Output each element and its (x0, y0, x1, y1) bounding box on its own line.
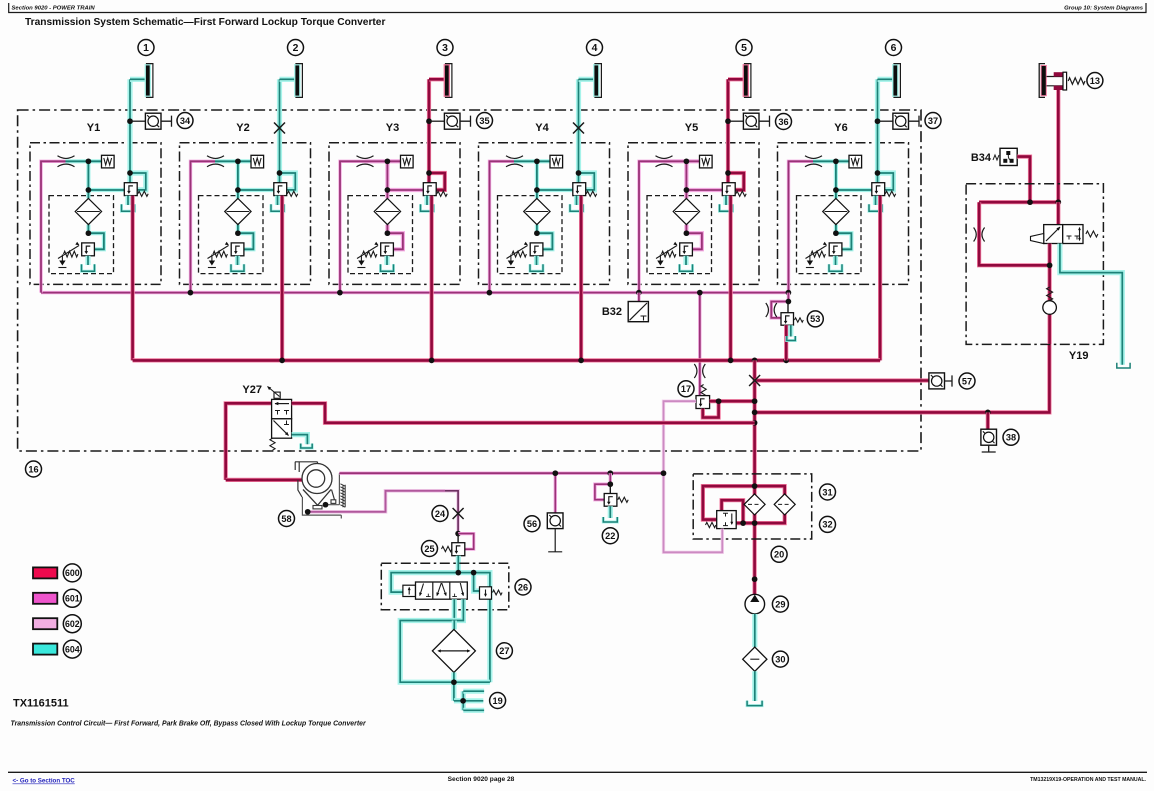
wire: interior supply (215, 159, 251, 163)
legend 604 (33, 644, 57, 655)
clutch supply line (726, 79, 730, 182)
clutch 1 id (138, 40, 154, 56)
filter 31 (744, 494, 765, 515)
plug stub (909, 116, 920, 127)
ground symbol (809, 255, 811, 261)
ground symbol (211, 255, 213, 261)
filter 32 (774, 494, 795, 515)
clutch supply line (427, 79, 431, 182)
clutch 6 id (886, 40, 902, 56)
svg-text:604: 604 (65, 644, 80, 654)
cooler outlet (451, 672, 456, 700)
solenoid stage drain (235, 256, 240, 265)
svg-text:B34: B34 (971, 152, 992, 164)
valve 17 feed (under rail) (698, 293, 701, 396)
orifice (974, 228, 977, 242)
svg-text:2: 2 (293, 43, 299, 54)
orifice (656, 156, 673, 159)
svg-text:29: 29 (775, 599, 785, 609)
junction dots (86, 158, 92, 164)
svg-text:6: 6 (891, 43, 897, 54)
proportional solenoid stage valve (231, 243, 244, 256)
damper spring box (849, 155, 862, 168)
test port 34 (127, 118, 133, 124)
svg-text:Y27: Y27 (242, 384, 262, 396)
wire to test port (429, 120, 444, 122)
svg-text:TX1161511: TX1161511 (13, 698, 69, 710)
lockup clutch 13 (1042, 66, 1046, 95)
solenoid stage drain (384, 256, 389, 265)
Y27 drain (292, 435, 308, 445)
orifice (506, 156, 523, 159)
wire: interior supply (365, 159, 401, 163)
Y19 pilot tab (1031, 234, 1044, 244)
orifice plug 24 (453, 508, 464, 519)
filter diamond (225, 198, 251, 224)
wire: pilot loop to solenoid stage (238, 233, 254, 249)
lube line to test port 57 (755, 378, 929, 382)
pilot relief 26b (480, 587, 492, 599)
orifice (357, 156, 374, 159)
valve 22 drain (608, 506, 613, 518)
svg-text:27: 27 (499, 646, 509, 656)
junction dots (385, 158, 391, 164)
clutch supply line (875, 79, 880, 182)
converter shaft hatch (340, 484, 345, 507)
plug stub (759, 116, 770, 127)
modulating reducing valve (872, 183, 885, 196)
orifice (58, 156, 75, 159)
filter diamond (673, 198, 699, 224)
wire: interior supply (813, 159, 849, 163)
lockup valve box Y19 (966, 184, 1103, 345)
svg-text:4: 4 (592, 43, 598, 54)
ground symbol (61, 255, 63, 261)
converter turbine V (303, 490, 331, 506)
valve 53 feed (787, 293, 790, 302)
solenoid stage drain (85, 256, 90, 265)
wire to control valve 26 (456, 556, 461, 573)
solenoid valve block Y5 (628, 143, 759, 285)
legend 602 (33, 618, 57, 629)
svg-text:31: 31 (822, 487, 832, 497)
torque converter 58 (302, 464, 332, 494)
wire to test port (130, 120, 145, 122)
bypass valve 20 inner loop (722, 500, 744, 523)
oil cooler 27 (432, 629, 475, 672)
lockup piston (1047, 77, 1064, 86)
damper spring box (700, 155, 713, 168)
modulating reducing valve (573, 183, 586, 196)
svg-text:Y6: Y6 (834, 122, 847, 134)
solenoid actuator (403, 585, 416, 596)
pressure supply drop (600) (878, 196, 882, 361)
svg-text:Group 10: System Diagrams: Group 10: System Diagrams (1064, 6, 1144, 12)
clutch 2 id (288, 40, 304, 56)
clutch 4 id (587, 40, 603, 56)
svg-text:602: 602 (65, 619, 80, 629)
legend 601 (33, 593, 57, 604)
svg-text:38: 38 (1006, 433, 1016, 443)
pressure supply drop (600) (131, 196, 135, 361)
filter gallery (703, 486, 755, 519)
bypass valve drain (602) (664, 473, 723, 552)
B34 line (1017, 157, 1030, 203)
filter block box (693, 474, 812, 539)
wire: feed from reduced-pressure rail (41, 161, 67, 292)
test port box (743, 113, 759, 129)
reduced pressure rail (601) (41, 291, 788, 294)
clutch pack symbol (594, 65, 598, 95)
wire: interior supply (66, 159, 102, 163)
modulating reducing valve (722, 183, 735, 196)
ground symbol (360, 255, 362, 261)
suction line (752, 614, 757, 647)
svg-text:Section 9020 - POWER TRAIN: Section 9020 - POWER TRAIN (12, 6, 96, 12)
valve 53 outlet (600) (784, 325, 788, 360)
svg-text:Y19: Y19 (1069, 350, 1089, 362)
Y27 solenoid pilot (274, 392, 280, 398)
wire: feed from reduced-pressure rail (639, 161, 665, 292)
svg-text:TM13219X19-OPERATION AND TEST: TM13219X19-OPERATION AND TEST MANUAL. (1030, 777, 1146, 783)
valve drain to tank (873, 196, 878, 205)
proportional solenoid stage valve (530, 243, 543, 256)
scavenge pump 29 (745, 594, 765, 614)
solenoid valve block Y4 (479, 143, 610, 285)
bypass valve 20 (717, 511, 737, 529)
damper spring box (251, 155, 264, 168)
tank 19 (454, 698, 463, 703)
converter outlet (601) (326, 473, 340, 505)
legend 600 (33, 567, 57, 578)
check valve 25 loop (458, 534, 474, 550)
filter diamond (75, 198, 101, 224)
orifice (694, 364, 697, 378)
pressure feedback loop (728, 173, 744, 190)
svg-text:Transmission Control Circuit—: Transmission Control Circuit— First Forw… (11, 721, 366, 728)
damper spring box (550, 155, 563, 168)
main pressure rail (600) (133, 358, 881, 362)
pilot gallery (458, 570, 473, 575)
pressure feedback loop (429, 173, 445, 190)
svg-text:57: 57 (962, 376, 972, 386)
orifice (805, 156, 822, 159)
clutch pack symbol (445, 65, 449, 95)
sump (752, 671, 757, 701)
clutch supply line (127, 79, 132, 182)
relief valve 53 (781, 313, 794, 326)
B32 sensor feed (637, 293, 640, 302)
valve assembly box 16 (18, 110, 921, 451)
check valve 25 (452, 543, 465, 556)
pressure feedback loop (130, 173, 146, 190)
wire: interior supply (664, 159, 700, 163)
clutch pack symbol (295, 65, 299, 95)
clutch pack symbol (146, 65, 150, 95)
directional spool valve 26 (416, 582, 468, 599)
orifice (766, 303, 769, 317)
wire: converter inlet (226, 478, 302, 482)
header rule (9, 3, 1146, 13)
filter diamond (374, 198, 400, 224)
main supply drop to converter circuit (752, 360, 756, 594)
valve drain to tank (574, 196, 579, 205)
valve outlet with check (1047, 244, 1051, 345)
temperature sensor B32 (628, 302, 648, 322)
damper spring box (102, 155, 115, 168)
valve drain to tank (275, 196, 280, 205)
svg-text:Y2: Y2 (236, 122, 249, 134)
test port 35 (426, 118, 432, 124)
wire: feed from reduced-pressure rail (191, 161, 217, 292)
test port 38 (986, 412, 990, 429)
junction dots (684, 158, 690, 164)
svg-text:20: 20 (774, 550, 784, 560)
wire: pilot loop to solenoid stage (686, 233, 702, 249)
svg-text:13: 13 (1090, 76, 1100, 86)
valve 17 outlet (710, 399, 755, 403)
Y19 drain (1060, 244, 1122, 365)
clutch supply line (277, 79, 282, 182)
pressure feedback loop (878, 173, 894, 190)
wire to test port (728, 120, 743, 122)
proportional solenoid stage valve (82, 243, 95, 256)
proportional solenoid stage valve (829, 243, 842, 256)
solenoid valve block Y3 (329, 143, 460, 285)
Y27 outlet to converter line (292, 403, 755, 423)
svg-text:B32: B32 (602, 306, 622, 318)
modulating reducing valve (274, 183, 287, 196)
svg-text:5: 5 (741, 43, 747, 54)
svg-text:Y1: Y1 (87, 122, 100, 134)
solenoid valve Y19 (1056, 202, 1060, 224)
pressure supply drop (600) (280, 196, 284, 361)
Y27 spring (270, 438, 275, 450)
relief valve 22 (607, 470, 613, 476)
converter lube tap (602) (308, 491, 445, 512)
modulating reducing valve (124, 183, 137, 196)
svg-text:<- Go to Section TOC: <- Go to Section TOC (13, 778, 76, 785)
ground symbol (659, 255, 661, 261)
speed sensor B34 (1000, 148, 1017, 165)
svg-text:Y5: Y5 (685, 122, 698, 134)
clutch pack symbol (893, 65, 897, 95)
solenoid stage drain (534, 256, 539, 265)
test port box (444, 113, 460, 129)
test port 37 (875, 118, 881, 124)
valve 17 bottom loop (703, 401, 719, 417)
wire: pilot loop to solenoid stage (537, 233, 553, 249)
test port 36 (725, 118, 731, 124)
plug stub (161, 116, 172, 127)
valve 53 drain (788, 325, 793, 336)
wire: feed from reduced-pressure rail (340, 161, 366, 292)
solenoid valve block Y1 (30, 143, 161, 285)
cooler feed lines (452, 599, 457, 620)
svg-text:24: 24 (435, 509, 446, 519)
svg-text:601: 601 (65, 593, 80, 603)
converter-out / cooler return line (755, 344, 1050, 412)
strainer 30 (743, 647, 767, 671)
svg-text:3: 3 (442, 43, 448, 54)
plugged port Y4 (573, 123, 584, 134)
footer rule (8, 771, 1147, 773)
lockup supply (1056, 90, 1060, 202)
pressure supply drop (600) (430, 196, 434, 361)
pressure feedback loop (579, 173, 595, 190)
supply gallery (979, 200, 1058, 204)
proportional solenoid stage valve (680, 243, 693, 256)
plug stub (460, 116, 471, 127)
proportional solenoid stage valve (381, 243, 394, 256)
wire: interior supply (514, 159, 550, 163)
clutch 3 id (437, 40, 453, 56)
valve drain to tank (424, 196, 429, 205)
filter diamond (524, 198, 550, 224)
orifice (207, 156, 224, 159)
svg-text:Y4: Y4 (535, 122, 549, 134)
control valve box 26 (381, 563, 509, 610)
svg-text:19: 19 (492, 696, 502, 706)
solenoid stage drain (683, 256, 688, 265)
pressure supply drop (600) (579, 196, 583, 361)
junction dots (235, 158, 241, 164)
svg-text:17: 17 (681, 384, 691, 394)
clutch pack symbol (744, 65, 748, 95)
svg-text:58: 58 (281, 514, 291, 524)
junction dots (833, 158, 839, 164)
svg-text:Section 9020 page 28: Section 9020 page 28 (448, 776, 515, 783)
wire: pilot loop to solenoid stage (836, 233, 852, 249)
svg-text:37: 37 (928, 116, 938, 126)
svg-text:36: 36 (778, 117, 788, 127)
filter diamond (823, 198, 849, 224)
svg-text:22: 22 (605, 531, 615, 541)
svg-text:35: 35 (479, 116, 489, 126)
valve 17 sense line (602) (664, 401, 697, 473)
solenoid stage drain (833, 256, 838, 265)
svg-text:30: 30 (775, 654, 785, 664)
clutch 5 id (736, 40, 752, 56)
pressure regulator valve 17 (696, 396, 710, 409)
svg-text:600: 600 (65, 568, 80, 578)
test port box (893, 113, 909, 129)
damper spring box (401, 155, 414, 168)
svg-text:32: 32 (822, 520, 832, 530)
wire: supply to Y27 (226, 403, 272, 480)
wire: feed from reduced-pressure rail (789, 161, 815, 292)
wire: feed from reduced-pressure rail (490, 161, 516, 292)
svg-text:25: 25 (424, 544, 434, 554)
junction dots (534, 158, 540, 164)
converter case drain (302, 497, 341, 519)
plugged port Y2 (274, 123, 285, 134)
solenoid valve block Y6 (778, 143, 909, 285)
clutch supply line (576, 79, 581, 182)
ground symbol (510, 255, 512, 261)
svg-text:26: 26 (518, 582, 528, 592)
pressure feedback loop (280, 173, 296, 190)
pressure supply drop (600) (728, 196, 732, 361)
svg-text:Y3: Y3 (386, 122, 399, 134)
test port box (145, 113, 161, 129)
svg-text:16: 16 (28, 464, 38, 474)
modulating reducing valve (423, 183, 436, 196)
valve drain to tank (723, 196, 728, 205)
test port 57 (929, 373, 945, 389)
cooler bypass loop (400, 621, 490, 683)
svg-text:Transmission System Schematic—: Transmission System Schematic—First Forw… (25, 17, 385, 28)
svg-text:34: 34 (180, 116, 191, 126)
valve drain to tank (125, 196, 130, 205)
check valve 56 (554, 473, 557, 513)
svg-text:53: 53 (810, 314, 820, 324)
solenoid valve block Y2 (180, 143, 311, 285)
wire: pilot loop to solenoid stage (387, 233, 403, 249)
wire: pilot loop to solenoid stage (88, 233, 104, 249)
svg-text:56: 56 (527, 519, 537, 529)
svg-text:1: 1 (143, 43, 149, 54)
wire to test port (878, 120, 893, 122)
